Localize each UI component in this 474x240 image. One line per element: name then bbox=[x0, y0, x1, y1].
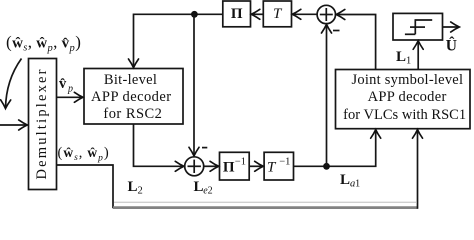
svg-text:Joint symbol-level: Joint symbol-level bbox=[352, 72, 464, 88]
wire: L1 from joint decoder up to hard decision bbox=[417, 41, 419, 70]
svg-text:2: 2 bbox=[208, 186, 213, 197]
svg-text:Demultiplexer: Demultiplexer bbox=[34, 69, 50, 179]
svg-text:−1: −1 bbox=[279, 157, 290, 168]
wire: bottom run along cropped edge (appears gray) bbox=[113, 206, 418, 209]
svg-text:APP decoder: APP decoder bbox=[91, 89, 171, 105]
svg-text:T: T bbox=[273, 6, 283, 22]
block: inverse interleaver P^-1 bbox=[220, 152, 250, 180]
label vp bbox=[59, 76, 73, 95]
svg-text:p: p bbox=[67, 84, 73, 95]
wire: bottom rail from T^-1 to joint decoder (La1) bbox=[294, 130, 376, 167]
block: interleaver P bbox=[223, 1, 251, 27]
minus sign at top adder bbox=[333, 30, 340, 32]
wire: vp from demultiplexer to bit-level decoder bbox=[57, 96, 84, 98]
svg-text:for RSC2: for RSC2 bbox=[103, 106, 161, 122]
wire: top adder output to mapper T bbox=[292, 13, 317, 15]
svg-text:L: L bbox=[128, 179, 138, 195]
wire: L1 from joint decoder up and left into top adder bbox=[336, 15, 375, 70]
junction node on bottom rail bbox=[323, 163, 330, 170]
wire: (ws,wp) from demultiplexer down to bottom edge bbox=[57, 165, 114, 208]
wire: L2 from bit-level decoder to lower adder bbox=[134, 124, 184, 166]
slicer step symbol bbox=[405, 33, 415, 35]
block: Demultiplexer bbox=[29, 59, 57, 190]
wire: from bottom-rail junction up to top adder (minus input) bbox=[326, 24, 328, 166]
svg-text:APP decoder: APP decoder bbox=[368, 89, 447, 105]
svg-text:Π: Π bbox=[223, 159, 235, 175]
label L1 bbox=[396, 49, 411, 67]
svg-text:L: L bbox=[396, 49, 406, 65]
svg-text:2: 2 bbox=[138, 186, 143, 197]
label (ws,wp) bbox=[58, 145, 110, 164]
minus sign at lower adder bbox=[202, 147, 207, 149]
svg-text:1: 1 bbox=[355, 179, 360, 190]
svg-text:for VLCs with RSC1: for VLCs with RSC1 bbox=[343, 107, 466, 123]
block: hard decision (slicer) bbox=[393, 13, 443, 40]
wire: top rail from interleaver to bit-level decoder bbox=[134, 14, 223, 67]
wire: T to interleaver P bbox=[251, 13, 263, 15]
wire: from top-rail junction down to lower adder (minus input) bbox=[193, 14, 195, 156]
svg-text:(ŵs, ŵp, v̂p): (ŵs, ŵp, v̂p) bbox=[6, 33, 81, 55]
wire: lower adder output to inverse interleaver bbox=[204, 165, 219, 167]
svg-text:L: L bbox=[340, 172, 350, 188]
label Le2 bbox=[194, 179, 213, 197]
junction node on top rail bbox=[191, 11, 198, 18]
svg-text:T: T bbox=[267, 159, 277, 175]
wire: slicer output U-hat bbox=[443, 26, 460, 28]
wire: faint ghost line above bottom run bbox=[114, 201, 416, 203]
svg-text:1: 1 bbox=[406, 56, 411, 67]
block: Joint symbol-level APP decoder for VLCs with RSC1 bbox=[336, 70, 471, 129]
svg-text:−1: −1 bbox=[235, 157, 246, 168]
svg-text:Π: Π bbox=[231, 6, 243, 22]
label La1 bbox=[340, 172, 360, 190]
svg-text:(ŵs, ŵp): (ŵs, ŵp) bbox=[58, 145, 110, 164]
wire: P^-1 to T^-1 bbox=[249, 165, 263, 167]
wire: up from bottom run into joint decoder bbox=[417, 130, 419, 209]
label U-hat bbox=[446, 38, 457, 55]
block: inverse mapper T^-1 bbox=[264, 152, 293, 180]
label (ws,wp,vp) input tuple bbox=[6, 33, 81, 55]
curved input arrow bbox=[6, 59, 22, 109]
svg-text:Bit-level: Bit-level bbox=[104, 72, 157, 88]
block: Bit-level APP decoder for RSC2 bbox=[84, 69, 183, 125]
adder (top) bbox=[317, 5, 335, 23]
svg-text:v̂: v̂ bbox=[59, 76, 67, 92]
adder (lower) bbox=[185, 157, 204, 176]
svg-text:Û: Û bbox=[446, 38, 457, 55]
block: mapper T bbox=[263, 1, 291, 27]
wire: input into demultiplexer bbox=[0, 124, 27, 126]
svg-text:L: L bbox=[194, 179, 204, 195]
label L2 bbox=[128, 179, 143, 197]
